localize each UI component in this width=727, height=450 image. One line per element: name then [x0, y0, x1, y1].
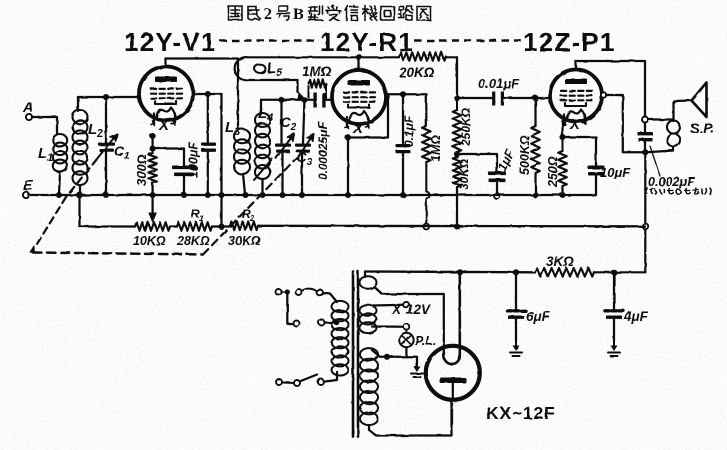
svg-text:2: 2 — [264, 6, 272, 23]
wire R1 plate riser — [358, 58, 360, 70]
node V1 cathode — [150, 133, 156, 139]
wire speaker coil return — [647, 147, 674, 153]
wire down to C3 — [303, 100, 305, 143]
wire to 6uF — [515, 272, 517, 308]
node C3-ground — [299, 192, 305, 198]
resistor 250ohm — [558, 151, 567, 186]
wire screen to B+ node — [606, 95, 643, 152]
node screen/bus — [218, 192, 224, 198]
svg-text:2: 2 — [249, 214, 255, 223]
svg-text:0.1μF: 0.1μF — [402, 115, 416, 147]
wire V1 screen — [193, 93, 222, 95]
arrowhead tap — [149, 213, 156, 222]
node B+ junction — [642, 149, 648, 155]
coil L2 — [73, 110, 88, 124]
ground pilot/HT tap — [416, 361, 418, 368]
wire L4 top to grid capacitor — [261, 99, 315, 101]
wire plate line to speaker node — [576, 61, 645, 117]
svg-text:1MΩ: 1MΩ — [302, 64, 332, 79]
pilot lamp P.L. — [399, 333, 413, 347]
tube V1 12Y-V1 — [139, 67, 193, 121]
svg-text:250KΩ: 250KΩ — [459, 107, 473, 147]
svg-text:6μF: 6μF — [526, 309, 551, 324]
terminal X12V lower — [404, 324, 410, 330]
resistor 250K — [453, 110, 462, 152]
node 100uF-ground — [181, 192, 187, 198]
switch contact bottom — [294, 380, 300, 386]
svg-text:12Y-R1: 12Y-R1 — [320, 27, 414, 57]
svg-text:KX~12F: KX~12F — [486, 403, 556, 423]
resistor 30K detector feed — [453, 157, 462, 187]
svg-text:E: E — [23, 178, 34, 194]
wire upper ground bus — [29, 194, 596, 196]
wire primary top to switch — [322, 293, 337, 303]
svg-text:300Ω: 300Ω — [134, 154, 149, 186]
node switch — [285, 289, 290, 294]
node R1 cathode — [345, 134, 351, 140]
node 250ohm-ground — [559, 192, 565, 198]
wire down to rectifier line — [644, 229, 646, 272]
node 1uF ring on bus — [494, 193, 500, 199]
wire 30K to lower bus crossing upper — [456, 187, 458, 227]
node C1-ground — [103, 192, 109, 198]
svg-text:X: X — [158, 117, 170, 134]
node L4-ground — [259, 192, 265, 198]
node 0.1uF-ground — [400, 192, 406, 198]
filament loop entering top — [444, 276, 460, 365]
capacitor 6uF — [507, 309, 526, 312]
wire screen tap to divider — [220, 196, 222, 227]
svg-text:10KΩ: 10KΩ — [133, 234, 166, 248]
node speaker top ring — [642, 117, 648, 123]
screen bypass capacitor — [201, 143, 216, 146]
wire 1M down with hop over bus — [426, 162, 429, 224]
wire C3 bottom — [301, 153, 303, 194]
svg-text:100μF: 100μF — [187, 142, 201, 178]
capacitor 0.002uF — [638, 132, 654, 135]
tube R1 12Y-R1 — [332, 70, 386, 124]
wire cathode to 10uF — [563, 137, 597, 166]
title glyph shin — [345, 6, 358, 21]
wire V1 plate riser — [164, 59, 166, 67]
wire V1 plate top bus to L3 — [166, 59, 239, 131]
wire ring to speaker coil — [648, 120, 674, 122]
node screen — [205, 91, 211, 97]
resistor 3K filter — [535, 268, 594, 277]
plug terminal top — [276, 289, 282, 295]
node 1M to lower bus — [423, 224, 429, 230]
node 30K lower bus — [454, 223, 460, 229]
wire divider feed from bus — [80, 196, 136, 227]
node HT tap — [384, 354, 390, 360]
resistor 1M grid leak — [308, 86, 310, 98]
wire row2 to primary tap — [325, 321, 335, 323]
svg-text:12Z-P1: 12Z-P1 — [523, 27, 615, 57]
wire node to 1uF — [457, 154, 497, 172]
capacitor 0.01uF — [492, 92, 495, 106]
svg-text:3KΩ: 3KΩ — [546, 254, 574, 269]
wire B+ line — [365, 270, 535, 273]
node cathode/R-C — [150, 145, 156, 151]
HT secondary winding — [360, 348, 378, 361]
wire tap to chassis ground — [387, 357, 417, 362]
wire heater tap lower — [372, 325, 403, 327]
wire down to C2 — [280, 100, 282, 143]
node 300ohm-ground — [150, 192, 156, 198]
coil L1 — [53, 134, 67, 146]
wire 100uF to bus — [183, 176, 185, 194]
antenna terminal A — [26, 114, 32, 120]
svg-text:500KΩ: 500KΩ — [518, 135, 532, 175]
svg-text:P.L.: P.L. — [415, 334, 436, 348]
wire filament winding to tube dome left — [374, 287, 444, 353]
contact bottom right — [318, 379, 324, 385]
wire HT tap to ground line — [372, 350, 387, 357]
node 28K/30K tap — [218, 223, 224, 229]
terminal X12V upper — [403, 302, 409, 308]
wire grid cap to R1 grid — [324, 99, 333, 101]
dashed leader between tube labels — [219, 39, 521, 42]
speaker horn — [692, 83, 707, 118]
wire lower bus — [258, 225, 645, 228]
node screen/0.1uF — [400, 91, 406, 97]
svg-text:250Ω: 250Ω — [546, 156, 560, 188]
wire P1 plate riser — [575, 61, 577, 70]
terminal labels A and E — [22, 100, 34, 194]
svg-text:12V: 12V — [406, 302, 431, 317]
svg-text:0.002μF: 0.002μF — [648, 175, 695, 189]
screen terminal ring P1 — [601, 92, 606, 97]
resistor 28K — [177, 222, 212, 231]
ground 6uF — [515, 340, 517, 347]
wire L5 return down — [296, 80, 298, 92]
tube P1 12Z-P1 — [550, 70, 602, 122]
capacitor 10uF — [588, 166, 605, 170]
wire HT bottom to rectifier plate — [369, 400, 452, 436]
node primary tap — [334, 320, 339, 325]
wire lamp to tap line — [405, 347, 407, 357]
node L2-ground — [76, 192, 83, 199]
wire junction down to crossing — [644, 153, 646, 223]
earth terminal E — [23, 192, 29, 198]
svg-text:30KΩ: 30KΩ — [457, 158, 471, 190]
wire heater tap upper — [372, 304, 403, 307]
svg-text:28KΩ: 28KΩ — [176, 234, 210, 248]
wire L2 top riser — [77, 97, 79, 111]
resistor 20K — [399, 52, 446, 61]
node P1 cathode — [559, 134, 565, 140]
wire L3 bottom to bus — [243, 174, 245, 194]
title glyph gou — [277, 6, 291, 20]
wire L2 top to V1 grid — [78, 96, 140, 98]
wire A to L1 top — [32, 117, 57, 133]
svg-text:A: A — [22, 100, 33, 116]
svg-text:S.P.: S.P. — [690, 120, 715, 136]
svg-text:10μF: 10μF — [600, 165, 631, 180]
wire to 1M resistor — [425, 94, 427, 126]
wire cathode to 100uF — [153, 149, 184, 166]
capacitor 0.1uF — [396, 144, 411, 147]
ring crossing lower bus — [642, 223, 648, 229]
svg-text:B: B — [293, 6, 304, 23]
wire 3K to B+ riser — [594, 271, 645, 273]
resistor 500K — [531, 126, 540, 173]
ground 4uF — [613, 340, 615, 347]
wire L4 top riser — [260, 100, 262, 114]
title glyph kata — [309, 6, 323, 20]
coil L4 — [255, 113, 270, 127]
svg-text:12Y-V1: 12Y-V1 — [124, 27, 217, 57]
rectifier plate bar — [440, 378, 467, 384]
resistor 10K — [135, 222, 170, 231]
title glyph ki — [363, 6, 378, 21]
rectifier tube KX-12F — [426, 346, 480, 400]
capacitor 1uF — [488, 172, 506, 176]
coil L5 tickler loop on plate bus — [235, 57, 457, 80]
wire screen to bypass cap — [207, 94, 209, 142]
wire filament winding to B+ line — [364, 272, 366, 278]
plug terminal bottom — [276, 379, 282, 385]
svg-text:X: X — [391, 302, 402, 317]
node bypass-ground — [205, 192, 211, 198]
node 250K/30K/1uF — [454, 151, 460, 157]
wire L4 crossing lead — [254, 159, 272, 180]
wire 1uF to bus — [496, 183, 498, 193]
node grid leak P1 — [532, 95, 538, 101]
wire R1 screen line — [386, 93, 426, 95]
wire to 500K — [534, 98, 536, 126]
wire L2 bottom — [79, 185, 81, 194]
wire cathode leg — [561, 121, 563, 137]
wire C1 bottom to bus — [105, 152, 107, 194]
wire to second row — [287, 292, 293, 324]
node C2-ground — [279, 192, 285, 198]
svg-text:30KΩ: 30KΩ — [228, 234, 261, 248]
node C2 tap — [278, 97, 284, 103]
wire C2 bottom — [281, 153, 283, 194]
node rect filament B+ — [457, 269, 463, 275]
speaker coil — [667, 121, 680, 134]
resistor 30K divider — [230, 222, 258, 231]
wire 500K to bus — [534, 173, 536, 194]
grid capacitor 0.00025uF — [313, 93, 316, 108]
switch blade bottom — [300, 375, 318, 382]
title glyph ro — [399, 6, 414, 20]
wire R1 cathode to bus — [347, 138, 349, 195]
C3 arrow — [297, 134, 314, 159]
rectifier filament winding — [360, 276, 377, 288]
svg-text:1MΩ: 1MΩ — [429, 135, 443, 162]
switch contact right — [317, 289, 323, 295]
variable capacitor C2 — [275, 144, 291, 147]
wire bus down to coupling node — [456, 57, 458, 98]
node 4uF — [611, 269, 617, 275]
switch contact — [296, 289, 302, 295]
wire to horn — [674, 101, 692, 120]
wire down to C1 — [105, 97, 107, 142]
node L3-ground — [242, 192, 248, 198]
wire screen feed down — [220, 94, 222, 194]
node L1-ground — [56, 192, 62, 198]
node 500K-ground — [532, 192, 538, 198]
variable capacitor C3 — [295, 144, 311, 147]
svg-text:0.00025μF: 0.00025μF — [316, 121, 330, 180]
capacitor 4uF — [605, 309, 624, 312]
svg-text:20KΩ: 20KΩ — [398, 65, 435, 80]
node 6uF — [513, 269, 519, 275]
svg-text:4μF: 4μF — [623, 309, 649, 324]
contact row2 left — [294, 321, 300, 327]
callout line 0.002uF — [650, 146, 660, 176]
title glyph ju — [327, 6, 342, 21]
variable capacitor C1 — [98, 143, 115, 146]
wire 6uF to ground — [515, 319, 517, 341]
dashed gang coupling line — [66, 159, 97, 197]
wire plate to bottom lead — [452, 383, 454, 400]
wire 10uF to bus end — [595, 176, 597, 195]
svg-text:1: 1 — [199, 214, 204, 223]
contact row2 right — [319, 320, 325, 326]
switch blade top — [302, 289, 317, 291]
transformer primary coil — [332, 301, 349, 312]
wire 300ohm to bus — [151, 183, 153, 194]
title glyph zu — [417, 7, 431, 21]
wire cathode box to screen line — [348, 94, 388, 137]
resistor 1M screen bleed — [422, 126, 431, 162]
node C3/L5/gridleak — [301, 97, 307, 103]
C2 arrow — [276, 134, 294, 158]
title latin chars — [264, 6, 304, 23]
wire 0.1uF to bus — [402, 153, 404, 194]
coil L3 — [234, 129, 250, 143]
wire 4uF to ground — [613, 319, 615, 341]
12V heater winding — [360, 305, 377, 316]
C1 tuning arrow — [96, 134, 117, 160]
resistor 300ohm — [148, 153, 157, 183]
wire down to 0.1uF — [402, 94, 404, 143]
wire bypass cap to bus — [207, 152, 209, 194]
node coupling — [454, 95, 460, 101]
title glyph kai — [381, 7, 394, 21]
wire 0.002 to junction — [644, 142, 646, 152]
arrow regeneration tap — [298, 93, 305, 100]
resistor 1M zigzag — [309, 79, 327, 87]
wire L1 bottom to ground bus — [59, 172, 60, 194]
wire ring to 0.002 cap — [644, 123, 646, 132]
kana note (nai mono mo ari) — [646, 188, 711, 195]
wire to 4uF — [613, 272, 615, 308]
wire primary bottom to switch — [325, 372, 337, 382]
node grid/C1 — [103, 94, 109, 100]
node cathode-ground — [345, 192, 351, 198]
svg-text:X: X — [569, 116, 581, 133]
transformer core — [353, 272, 358, 437]
capacitor 100uF — [172, 166, 196, 170]
wire to 0.01uF — [457, 97, 494, 99]
wire 0.01uF to P1 grid — [503, 97, 551, 99]
title glyph min — [248, 7, 261, 21]
title glyph kuni — [229, 6, 243, 20]
svg-text:0.01μF: 0.01μF — [478, 76, 520, 91]
svg-text:X: X — [352, 120, 364, 137]
wire L4 bottom — [261, 179, 263, 194]
node R1 plate on bus — [356, 54, 362, 60]
wire cathode down — [151, 136, 153, 149]
wire tap arrow from 300ohm — [151, 196, 153, 214]
